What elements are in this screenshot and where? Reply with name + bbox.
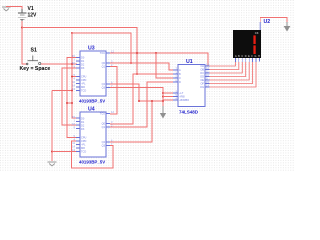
node y53/x137 xyxy=(136,52,138,54)
svg-text:D0: D0 xyxy=(81,55,85,59)
svg-text:CK: CK xyxy=(255,31,259,35)
svg-text:40193BP_5V: 40193BP_5V xyxy=(79,99,105,104)
wire U3 QA long line to U1 pin A xyxy=(110,63,173,70)
svg-text:D1: D1 xyxy=(81,59,85,63)
wire U4 QD loop under chip xyxy=(72,141,114,168)
node x152/y101 xyxy=(151,100,153,102)
svg-text:TCD: TCD xyxy=(81,149,86,153)
svg-text:CPD: CPD xyxy=(81,78,87,82)
svg-text:Q3: Q3 xyxy=(102,85,106,89)
wires U1 outputs to display staircase xyxy=(210,62,257,87)
U1 pin numbers xyxy=(176,63,210,101)
node x72/y90.5 rail xyxy=(71,90,73,92)
node x139/y101 xyxy=(138,100,140,102)
svg-text:MR: MR xyxy=(81,146,85,150)
svg-text:~BI/RBO: ~BI/RBO xyxy=(179,98,189,102)
node x72/y103 xyxy=(71,102,73,104)
node y53/x156 xyxy=(155,52,157,54)
svg-text:OE: OE xyxy=(200,78,204,82)
wire OF to pin F xyxy=(210,62,253,84)
svg-text:TCU: TCU xyxy=(100,51,105,55)
U3 pin labels inside xyxy=(81,51,106,93)
svg-text:Q1: Q1 xyxy=(102,64,106,68)
svg-text:OD: OD xyxy=(200,74,204,78)
wire x53 down to ground xyxy=(51,91,53,162)
U4 pin labels inside xyxy=(81,111,106,153)
U3 pin numbers xyxy=(72,50,114,92)
svg-text:~PL: ~PL xyxy=(81,142,86,146)
wire battery down to switch xyxy=(22,21,27,64)
U1 left pins xyxy=(173,70,178,100)
svg-text:U2: U2 xyxy=(264,19,271,25)
svg-text:TCU: TCU xyxy=(100,111,105,115)
digital ground arrow (below U1) xyxy=(160,106,166,119)
wire U3 QD to U1 control pins xyxy=(110,88,163,107)
wire OA to pin A xyxy=(210,62,236,66)
wire vertical x72 feed xyxy=(72,33,77,118)
svg-text:A: A xyxy=(179,68,181,72)
svg-text:40193BP_5V: 40193BP_5V xyxy=(79,160,105,165)
wire OB to pin B xyxy=(210,62,239,70)
display CK pin stub (blue) xyxy=(259,22,261,30)
svg-text:D0: D0 xyxy=(81,116,85,120)
wire branch y103 xyxy=(67,102,72,104)
svg-text:Q3: Q3 xyxy=(102,143,106,147)
wire switch to U3 pin xyxy=(41,63,77,65)
svg-text:C: C xyxy=(179,76,181,80)
svg-text:D2: D2 xyxy=(81,123,85,127)
svg-text:OB: OB xyxy=(200,67,204,71)
svg-text:Q2: Q2 xyxy=(102,82,106,86)
svg-text:OC: OC xyxy=(200,71,204,75)
digital ground arrow (top right) xyxy=(284,22,291,32)
svg-text:~RBI: ~RBI xyxy=(179,94,185,98)
svg-text:Q1: Q1 xyxy=(102,125,106,129)
node x163/~LT branch xyxy=(162,92,164,94)
svg-text:OA: OA xyxy=(200,64,204,68)
svg-text:D3: D3 xyxy=(81,127,85,131)
segment c xyxy=(253,45,255,54)
wire OD to pin D xyxy=(210,62,246,77)
wire OC to pin C xyxy=(210,62,243,73)
U4 pin numbers xyxy=(72,110,114,152)
svg-text:OG: OG xyxy=(200,85,204,89)
svg-text:Key = Space: Key = Space xyxy=(20,66,51,72)
wire branch to U4 CLR xyxy=(52,151,77,153)
node x53 CLR branch xyxy=(51,150,53,152)
svg-text:CPU: CPU xyxy=(81,135,87,139)
wire pin B line to U4 QA xyxy=(110,74,173,124)
svg-text:A B C D E F G H: A B C D E F G H xyxy=(235,55,260,58)
node x72/switch xyxy=(71,63,73,65)
wire OE to pin E xyxy=(210,62,250,80)
node x72/U3 CPD branch xyxy=(71,76,73,78)
svg-text:Q0: Q0 xyxy=(102,61,106,65)
svg-text:S1: S1 xyxy=(31,48,37,54)
IC U3 body xyxy=(72,46,114,104)
wire U4 QC up to net y101 xyxy=(110,101,152,142)
wire top rail to U1 pin B xyxy=(22,28,137,75)
svg-text:D3: D3 xyxy=(81,66,85,70)
wire x67: U3 pin1 down to U4 CPD xyxy=(67,58,77,138)
svg-text:Q2: Q2 xyxy=(102,140,106,144)
wire branch y88 to ground rail xyxy=(52,90,72,92)
svg-text:U1: U1 xyxy=(186,59,193,65)
svg-text:OF: OF xyxy=(200,81,204,85)
wire OG to pin G xyxy=(210,62,257,87)
node x137/y74 xyxy=(136,73,138,75)
svg-text:~PL: ~PL xyxy=(81,81,86,85)
U3 left pins xyxy=(76,58,80,91)
wire branch to U3 pin CPU xyxy=(72,76,77,78)
svg-text:V1: V1 xyxy=(28,6,34,12)
wire x62: U3 CPD down to U4 CPD2 xyxy=(62,68,77,125)
node x131/y63 xyxy=(130,62,132,64)
svg-text:CPD: CPD xyxy=(81,139,87,143)
U1 right pins xyxy=(205,66,210,87)
wire CK to digital ground xyxy=(260,18,287,23)
wire U3 TC rail y53 xyxy=(110,53,208,66)
U4 left pins xyxy=(76,118,80,152)
svg-text:MR: MR xyxy=(81,85,85,89)
wire branch RBI xyxy=(163,96,173,98)
U3 right pins xyxy=(106,53,110,88)
svg-text:D: D xyxy=(179,80,181,84)
svg-text:74LS48D: 74LS48D xyxy=(179,110,199,115)
ground (top-left, GND for V1) xyxy=(2,7,11,11)
wire clock branch to U1 pin A xyxy=(72,33,131,63)
pin H stub xyxy=(259,58,261,62)
wire net y101 xyxy=(139,100,163,102)
IC U1 body xyxy=(173,59,210,115)
node junction battery/top rail xyxy=(21,26,23,28)
segment b xyxy=(253,35,255,44)
display pin stubs (blue) xyxy=(235,58,259,62)
wire x156 to U1 pin C xyxy=(156,53,173,78)
svg-text:B: B xyxy=(179,72,181,76)
ground (below, for U4) xyxy=(48,162,57,166)
node clock branch xyxy=(71,32,73,34)
svg-text:~LT: ~LT xyxy=(179,91,184,95)
svg-text:TCD: TCD xyxy=(81,88,86,92)
svg-text:U4: U4 xyxy=(88,107,95,113)
node x67/y103 xyxy=(66,102,68,104)
IC U4 body xyxy=(72,107,114,165)
svg-text:U3: U3 xyxy=(88,46,95,52)
svg-text:Q0: Q0 xyxy=(102,121,106,125)
U4 right pins xyxy=(106,114,110,146)
node x163/y101 net xyxy=(162,100,164,102)
node x163/~RBI branch xyxy=(162,96,164,98)
svg-text:CPU: CPU xyxy=(81,74,87,78)
switch S1 xyxy=(26,56,40,65)
wire branch BI/RBO xyxy=(163,99,173,101)
wire ground to battery xyxy=(6,7,22,10)
wire U4 QB to U1 pin D xyxy=(110,82,173,127)
wire U3 QC to net y101 xyxy=(110,84,139,101)
seven segment display U2 xyxy=(233,30,261,58)
wire branch LT xyxy=(163,92,173,94)
U1 pin labels inside xyxy=(179,64,204,102)
svg-text:12V: 12V xyxy=(28,12,38,18)
svg-text:D2: D2 xyxy=(81,62,85,66)
wire U3 QB to U4 TC xyxy=(110,67,117,115)
battery V1 xyxy=(18,9,27,21)
svg-text:D1: D1 xyxy=(81,120,85,124)
